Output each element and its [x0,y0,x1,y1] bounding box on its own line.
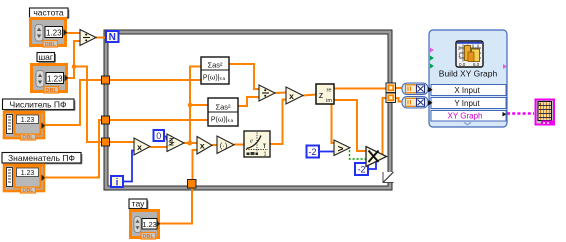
svg-text:Y Input: Y Input [454,99,480,108]
svg-text:DBL: DBL [143,234,155,240]
svg-text:x: x [289,91,294,101]
svg-text:(·): (·) [220,141,228,150]
svg-text:DBL: DBL [46,88,58,94]
svg-text:DBL: DBL [22,188,34,194]
svg-text:XY Graph: XY Graph [448,112,483,121]
svg-text:DBL: DBL [45,42,57,48]
svg-text:0.0: 0.0 [459,62,466,67]
svg-text:x: x [137,142,142,152]
svg-text:i: i [116,177,119,188]
svg-text:z: z [319,90,324,100]
svg-text:Знаменатель ПФ: Знаменатель ПФ [8,153,75,163]
svg-text:DBL: DBL [22,135,34,141]
svg-text:N: N [109,32,116,43]
svg-text:X Input: X Input [454,86,480,95]
svg-text:Σas²: Σas² [207,61,223,70]
svg-text:-2: -2 [357,165,365,175]
svg-text:тау: тау [132,199,145,209]
svg-text:e: e [250,138,253,145]
svg-text:Σas²: Σas² [215,103,231,112]
svg-text:1.23: 1.23 [142,220,157,229]
svg-text:2: 2 [458,46,461,52]
svg-text:Числитель ПФ: Числитель ПФ [10,99,67,109]
svg-text:частота: частота [33,8,64,18]
svg-text:1: 1 [264,152,267,158]
svg-text:-2: -2 [308,147,316,157]
svg-text:x: x [200,141,205,151]
svg-text:re: re [327,88,332,94]
svg-text:im: im [326,98,332,104]
svg-text:6.0: 6.0 [473,62,480,67]
svg-text:>: > [338,144,344,155]
svg-text:0: 0 [156,131,161,141]
svg-text:шаг: шаг [38,52,53,62]
svg-text:Build XY Graph: Build XY Graph [439,69,498,79]
svg-text:1.23: 1.23 [47,74,63,83]
svg-text:1.23: 1.23 [46,28,62,37]
svg-text:1.23: 1.23 [21,117,35,124]
svg-text:1: 1 [458,53,461,59]
svg-text:1.23: 1.23 [21,170,35,177]
svg-text:P(ω)|ₖₐ: P(ω)|ₖₐ [203,75,226,82]
svg-text:P(ω)|ₖₐ: P(ω)|ₖₐ [211,117,234,124]
